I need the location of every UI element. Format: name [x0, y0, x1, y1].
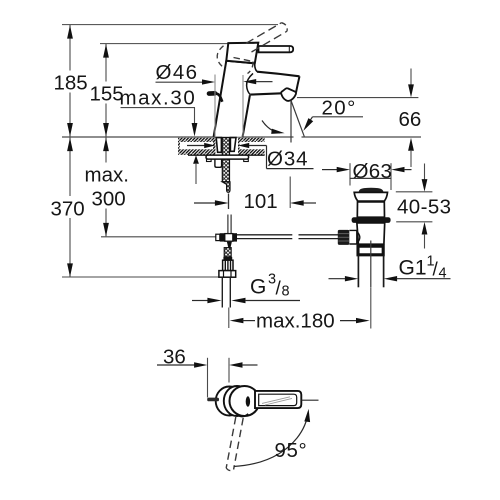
dashed lever tip cap	[282, 23, 288, 32]
flexible hose lower segment (double)	[227, 215, 229, 234]
O63 dimension arrows	[322, 169, 338, 171]
lever tip reference tick	[302, 399, 319, 401]
O46 right arrow	[243, 79, 256, 84]
36 extension lines	[207, 358, 209, 398]
svg-text:G1: G1	[399, 257, 427, 280]
svg-text:40-53: 40-53	[397, 195, 451, 218]
body neck curve	[255, 63, 258, 71]
svg-text:8: 8	[282, 284, 290, 300]
max.300 bottom reference line	[101, 236, 219, 238]
dimension 185 vertical line	[69, 25, 71, 71]
side port connector	[349, 230, 356, 244]
G3/8 pipe stub	[221, 277, 223, 307]
svg-text:max.: max.	[85, 164, 129, 187]
O63 extension lines	[349, 163, 351, 185]
dimension max.180	[230, 318, 244, 323]
max.180 right extension line	[370, 288, 372, 329]
counter cross-section hatch right	[238, 138, 265, 155]
connector thread below tee	[224, 248, 231, 257]
rod tip	[222, 182, 230, 193]
pop-up rod horizontal (left of gap)	[237, 234, 292, 236]
svg-text:Ø34: Ø34	[267, 148, 308, 171]
pull-rod hook on body	[209, 93, 222, 102]
centerline below pipe	[228, 308, 230, 329]
pop-up waste plug cap	[359, 188, 384, 192]
body bottom thin line	[357, 243, 384, 245]
pull rod stub	[207, 398, 219, 402]
shank: threaded rod upper	[222, 138, 229, 159]
body left edge	[214, 61, 227, 137]
aerator housing	[281, 88, 296, 101]
shank: right cone	[230, 138, 236, 152]
dimension 155 vertical line	[105, 44, 107, 82]
svg-text:max.30: max.30	[120, 87, 197, 110]
dashed lever (raised position) top edge	[246, 23, 282, 44]
svg-text:101: 101	[244, 190, 278, 213]
pop-up body	[357, 223, 385, 244]
flexible hose upper segment	[228, 194, 230, 210]
reference line (body height 155)	[100, 43, 229, 45]
tee lower funnel	[227, 242, 232, 248]
20deg lower leader with arrow	[313, 116, 364, 118]
knurled side knob	[338, 230, 350, 245]
svg-text:G: G	[250, 276, 266, 299]
dashed lever bottom edge	[252, 31, 288, 52]
lever handle (horizontal bar)	[259, 46, 294, 52]
body right lower edge	[243, 95, 250, 137]
dashed lever rotated (95 deg)	[226, 417, 236, 468]
svg-text:Ø63: Ø63	[353, 160, 393, 183]
svg-text:20°: 20°	[322, 97, 357, 120]
body rear ellipse	[216, 387, 243, 416]
leader to O34 label	[266, 146, 268, 169]
O46 extension lines	[214, 75, 216, 137]
20deg upper leader line (also 66 top reference)	[297, 97, 418, 99]
cartridge head	[226, 43, 258, 64]
tee fitting white center	[225, 234, 233, 242]
dimension 40-53	[396, 191, 433, 193]
max.30 lower arrow (counter underside)	[193, 155, 199, 164]
svg-text:95°: 95°	[275, 439, 308, 462]
counter top surface line	[62, 136, 294, 138]
dimension max.300 vertical line	[105, 138, 107, 163]
svg-text:66: 66	[399, 108, 422, 131]
pivot mark	[246, 396, 250, 406]
attachment arc under circle	[237, 414, 248, 417]
pop-up neck	[357, 202, 384, 217]
svg-text:4: 4	[439, 266, 447, 282]
faucet body with spout (filled outline)	[214, 61, 300, 137]
95 deg swing arc with arrow	[234, 412, 309, 467]
dashed lever rear arc	[217, 46, 226, 69]
threaded rod lower	[222, 159, 229, 182]
svg-text:370: 370	[51, 198, 85, 221]
spout top edge	[257, 72, 300, 77]
101 extension line under O34	[289, 177, 291, 209]
dashed lever inner diagonal	[234, 58, 254, 62]
svg-text:185: 185	[54, 72, 88, 95]
shank: left cone below body	[216, 138, 221, 153]
pop-up flange	[354, 192, 387, 201]
tailpipe	[357, 255, 359, 287]
dimension 101	[194, 202, 215, 204]
bottom flange (thick bordered)	[358, 246, 383, 255]
tee fitting left black block	[220, 233, 225, 241]
dimension 370 vertical line	[69, 138, 71, 197]
G3/8 dimension arrows	[192, 300, 208, 302]
connector ribbed block	[223, 260, 233, 270]
washer leg	[215, 159, 222, 167]
water stream vertical line	[290, 101, 292, 143]
connector nut	[219, 271, 236, 278]
G1 1/4 dimension arrows	[329, 278, 346, 280]
top reference line (overall height 185)	[62, 24, 278, 26]
horseshoe washer plate	[206, 155, 249, 159]
spout right edge	[296, 76, 300, 92]
spout bottom edge	[250, 93, 281, 94]
lever (top view) outer	[255, 391, 301, 408]
pop-up rod horizontal (right of gap)	[299, 234, 339, 236]
dimension 66 arrows	[410, 69, 412, 86]
hole dimension arrows (O34 mounting hole)	[187, 145, 205, 147]
svg-text:max.180: max.180	[256, 310, 335, 333]
swivel arc arrow	[262, 121, 280, 133]
rubber seal ring	[352, 217, 391, 223]
spout-body fillet arc	[247, 73, 253, 94]
water stream slanted line (20 deg)	[291, 101, 304, 137]
lever inner outline	[259, 394, 297, 405]
connector dark band	[223, 257, 232, 260]
tee fitting right black block	[233, 233, 237, 241]
pop-up centerline	[370, 241, 372, 288]
dashed lever inner arc	[248, 62, 254, 74]
counter underside line	[188, 154, 265, 156]
counter cross-section hatch left	[178, 138, 215, 155]
370 bottom reference line	[62, 276, 219, 278]
tee fitting white left block	[216, 234, 220, 240]
handle dome circle	[230, 386, 260, 416]
svg-text:Ø46: Ø46	[156, 61, 199, 84]
white halo for hole arrows	[180, 142, 213, 149]
svg-text:300: 300	[92, 188, 126, 211]
head bottom edge	[226, 61, 255, 64]
body mid ellipse	[224, 386, 250, 416]
